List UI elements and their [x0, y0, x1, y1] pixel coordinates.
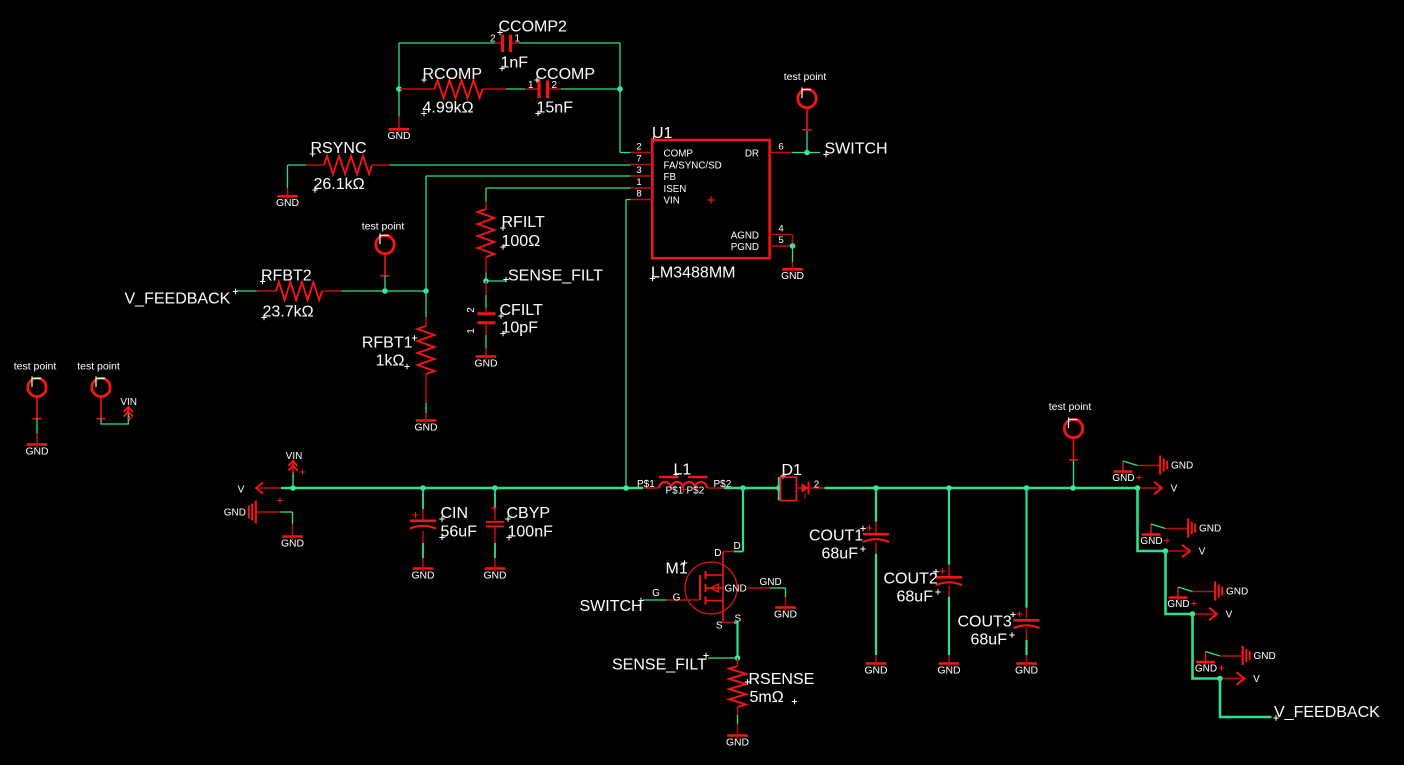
wire output rail — [825, 487, 1138, 490]
svg-text:68uF: 68uF — [897, 589, 934, 606]
svg-text:LM3488MM: LM3488MM — [651, 265, 735, 282]
ground GND under CBYP — [483, 568, 506, 582]
U1 pin 3 FB — [631, 165, 677, 183]
ground GND battery symbol 1 — [1138, 456, 1194, 475]
svg-text:GND: GND — [474, 358, 497, 369]
node staircase junction 4 — [1217, 676, 1223, 682]
svg-text:RSYNC: RSYNC — [311, 140, 367, 157]
svg-text:G: G — [673, 593, 681, 604]
ground GND under COUT3 — [1015, 663, 1038, 677]
wire staircase segment 1 — [1138, 488, 1166, 551]
wire staircase segment 2 — [1166, 551, 1193, 614]
wire RSYNC right lead — [372, 164, 390, 166]
test point TP output — [1049, 401, 1092, 460]
U1 pin 2 COMP — [631, 141, 694, 159]
wire M1 gate connection — [643, 588, 699, 604]
wire RFBT2 left lead — [257, 290, 277, 292]
svg-text:GND: GND — [1254, 651, 1276, 662]
svg-text:CCOMP2: CCOMP2 — [499, 19, 568, 36]
ground GND flag 2 on staircase — [1140, 524, 1169, 547]
node label SWITCH at gate — [580, 598, 644, 615]
test point TP2 far left — [77, 361, 120, 419]
wire RSYNC left lead — [306, 164, 324, 166]
svg-text:SENSE_FILT: SENSE_FILT — [612, 657, 707, 674]
resistor RCOMP 4.99k — [421, 66, 482, 117]
capacitor CIN 56uF — [410, 505, 477, 541]
svg-text:8: 8 — [636, 188, 641, 199]
wire L1 to D1 — [724, 487, 779, 490]
svg-text:GND: GND — [1226, 587, 1248, 598]
svg-text:GND: GND — [1015, 665, 1038, 676]
ground GND battery symbol 4 — [1220, 646, 1276, 665]
wire L1 right lead — [707, 487, 724, 489]
wire RCOMP left lead — [400, 88, 435, 90]
svg-text:COMP: COMP — [664, 149, 694, 160]
node label SENSE_FILT — [486, 268, 603, 285]
svg-text:V: V — [1226, 610, 1233, 621]
wire node to CFILT — [485, 281, 487, 313]
svg-text:S: S — [716, 621, 723, 632]
capacitor CFILT 10pF — [466, 302, 543, 337]
ground GND flag 1 on staircase — [1112, 461, 1141, 484]
node VIN junction — [290, 485, 296, 491]
node FB junction — [423, 288, 429, 294]
svg-text:7: 7 — [636, 153, 641, 164]
wire stem to GND — [398, 117, 400, 129]
U1 pin 5 PGND — [731, 235, 793, 253]
ground GND under COUT2 — [937, 663, 960, 677]
svg-text:COUT1: COUT1 — [809, 528, 863, 545]
wire TP2 to VIN — [101, 413, 128, 424]
ground GND at M1 bulk — [774, 607, 797, 621]
wire V_FEEDBACK stub — [237, 290, 257, 292]
ground GND under U1 — [781, 268, 804, 282]
wire M1 drain connection — [714, 541, 743, 559]
resistor RFILT 100ohm — [478, 209, 545, 257]
ground GND under CFILT — [474, 356, 497, 370]
U1 pin 8 VIN — [631, 188, 680, 206]
svg-text:GND: GND — [781, 271, 804, 282]
svg-text:DR: DR — [745, 149, 759, 160]
wire CCOMP to right vertical — [561, 88, 620, 90]
wire test point to SWITCH — [806, 131, 808, 153]
svg-text:G: G — [652, 588, 660, 599]
svg-text:SENSE_FILT: SENSE_FILT — [508, 268, 603, 285]
wire RFILT top lead — [485, 202, 487, 210]
inductor L1 — [637, 462, 732, 497]
svg-text:V_FEEDBACK: V_FEEDBACK — [125, 291, 231, 308]
wire PGND to ground — [792, 246, 794, 269]
svg-text:GND: GND — [483, 570, 506, 581]
ground GND under TP1 — [25, 444, 48, 458]
svg-text:RFILT: RFILT — [502, 214, 545, 231]
wire RCOMP to CCOMP — [506, 88, 525, 90]
svg-text:P$1: P$1 — [637, 479, 655, 490]
power flag VIN main — [286, 451, 305, 488]
node switch junction — [740, 485, 746, 491]
svg-text:VIN: VIN — [120, 397, 137, 408]
svg-text:D: D — [734, 541, 741, 552]
wire RSYNC to ground — [287, 165, 289, 196]
svg-text:GND: GND — [224, 508, 246, 519]
capacitor CBYP 100nF — [486, 505, 553, 541]
svg-text:4: 4 — [778, 223, 784, 234]
wire AGND to PGND junction — [790, 235, 796, 249]
svg-text:RFBT2: RFBT2 — [261, 268, 312, 285]
ground GND flag 4 on staircase — [1195, 652, 1224, 675]
svg-text:V: V — [1199, 547, 1206, 558]
wire rail to COUT1 — [873, 485, 879, 533]
wire rail to CBYP — [492, 485, 498, 520]
svg-text:GND: GND — [760, 577, 782, 588]
node junction right comp — [617, 86, 623, 92]
svg-text:68uF: 68uF — [822, 546, 859, 563]
svg-text:2: 2 — [490, 34, 496, 45]
wire RFBT2 to FB node — [342, 290, 427, 292]
svg-text:1kΩ: 1kΩ — [376, 353, 405, 370]
wire COUT1 to ground — [875, 542, 877, 662]
ground GND at RSYNC — [276, 195, 299, 209]
wire COMP loop top-left — [399, 42, 495, 44]
resistor RFBT1 1k — [362, 326, 435, 374]
svg-text:GND: GND — [414, 422, 437, 433]
wire RCOMP right lead — [483, 88, 507, 90]
power flag V arrow 1 — [1140, 482, 1178, 495]
svg-text:SWITCH: SWITCH — [580, 598, 643, 615]
wire RSYNC left — [288, 164, 307, 166]
wire RSYNC to pin 7 — [390, 164, 631, 166]
node label V_FEEDBACK bottom — [1273, 704, 1380, 721]
svg-text:CCOMP: CCOMP — [536, 66, 596, 83]
ground GND under CIN — [411, 568, 434, 582]
wire CFILT to ground — [485, 323, 487, 356]
wire to pin 2 — [620, 152, 631, 154]
capacitor CCOMP 15nF — [528, 66, 595, 117]
wire switch node down to M1 drain — [742, 488, 744, 552]
wire jumper diagonal 3 — [1178, 587, 1193, 592]
svg-text:test point: test point — [362, 221, 405, 233]
U1 pin 7 FA/SYNC/SD — [631, 153, 722, 171]
ground GND under comp loop — [387, 128, 410, 142]
svg-text:GND: GND — [276, 198, 299, 209]
svg-text:15nF: 15nF — [537, 100, 574, 117]
svg-text:COUT3: COUT3 — [958, 614, 1012, 631]
wire VIN pin to rail — [623, 200, 630, 491]
svg-text:GND: GND — [937, 665, 960, 676]
svg-text:1: 1 — [636, 177, 641, 188]
svg-text:GND: GND — [1195, 664, 1217, 675]
svg-text:RCOMP: RCOMP — [423, 66, 483, 83]
svg-text:23.7kΩ: 23.7kΩ — [263, 304, 314, 321]
svg-text:GND: GND — [25, 446, 48, 457]
svg-text:PGND: PGND — [731, 242, 759, 253]
voltage source V to ground — [224, 498, 293, 536]
ground GND under RFBT1 — [414, 420, 437, 434]
wire RFILT bottom lead — [485, 257, 487, 273]
svg-text:GND: GND — [725, 584, 747, 595]
svg-text:100Ω: 100Ω — [502, 233, 541, 250]
wire rail to COUT2 — [946, 485, 952, 576]
U1 pin 6 DR — [745, 141, 792, 159]
node SENSE_FILT junction — [483, 278, 489, 284]
capacitor CCOMP2 1nF — [490, 19, 567, 72]
wire CBYP to ground — [494, 527, 496, 568]
svg-text:ISEN: ISEN — [664, 184, 687, 195]
svg-text:FA/SYNC/SD: FA/SYNC/SD — [664, 161, 722, 172]
wire test point down to node — [384, 276, 386, 291]
svg-text:RFBT1: RFBT1 — [362, 335, 413, 352]
svg-text:V_FEEDBACK: V_FEEDBACK — [1274, 704, 1380, 721]
ground GND under COUT1 — [864, 663, 887, 677]
svg-text:1: 1 — [466, 328, 477, 334]
wire COUT3 to ground — [1026, 628, 1028, 662]
svg-text:test point: test point — [14, 361, 57, 373]
svg-text:CBYP: CBYP — [507, 505, 551, 522]
svg-text:test point: test point — [1049, 401, 1092, 413]
wire TP1 to ground — [36, 419, 38, 444]
transistor M1 MOSFET — [666, 552, 747, 623]
svg-text:test point: test point — [77, 361, 120, 373]
power flag V arrow 3 — [1195, 608, 1233, 621]
node staircase junction 2 — [1163, 548, 1169, 554]
svg-text:5mΩ: 5mΩ — [750, 689, 784, 706]
wire staircase segment 3 — [1193, 614, 1221, 679]
svg-text:D: D — [714, 548, 721, 559]
wire M1 bulk to ground — [748, 577, 786, 607]
svg-text:GND: GND — [387, 131, 410, 142]
wire RSENSE top lead — [737, 658, 739, 666]
power flag V input arrow — [238, 482, 281, 495]
node label SWITCH top — [823, 141, 887, 158]
svg-text:GND: GND — [281, 538, 304, 549]
svg-text:AGND: AGND — [731, 231, 759, 242]
node label SENSE_FILT bottom — [612, 653, 738, 674]
test point TP at feedback — [362, 221, 405, 276]
wire node to RFBT1 — [425, 291, 427, 326]
svg-text:10pF: 10pF — [502, 320, 539, 337]
ground GND under V source — [281, 536, 304, 550]
svg-text:V: V — [238, 485, 245, 496]
wire CCOMP2 to right corner — [519, 42, 620, 44]
power flag VIN at TP2 — [120, 397, 137, 421]
node label V_FEEDBACK left — [125, 289, 239, 308]
wire right vertical comp loop to COMP pin — [619, 43, 621, 153]
U1 pin 4 AGND — [731, 223, 793, 241]
resistor RFBT2 23.7k — [260, 268, 322, 321]
capacitor COUT1 68uF — [809, 525, 889, 563]
capacitor CCOMP2 leads — [495, 42, 519, 44]
svg-text:GND: GND — [1167, 599, 1189, 610]
svg-text:P$1: P$1 — [666, 486, 684, 497]
wire ISEN down to RFILT — [485, 188, 487, 202]
wire DR to SWITCH — [792, 152, 820, 154]
wire main rail left segment — [281, 487, 643, 490]
svg-text:RSENSE: RSENSE — [749, 671, 815, 688]
capacitor COUT2 68uF — [884, 568, 963, 605]
svg-text:COUT2: COUT2 — [884, 571, 938, 588]
wire jumper diagonal 1 — [1123, 461, 1138, 466]
capacitor CCOMP leads — [525, 88, 561, 90]
svg-text:2: 2 — [466, 307, 477, 313]
node test point junction — [382, 288, 388, 294]
svg-text:VIN: VIN — [664, 196, 680, 207]
wire FB net horizontal — [426, 175, 631, 177]
svg-text:68uF: 68uF — [971, 632, 1008, 649]
resistor RSYNC 26.1k — [310, 140, 372, 193]
svg-text:GND: GND — [411, 570, 434, 581]
wire left vertical of comp loop — [398, 43, 400, 117]
svg-text:2: 2 — [814, 479, 820, 490]
wire L1 left lead — [643, 487, 659, 489]
ground GND under RSENSE — [726, 735, 749, 749]
svg-text:P$2: P$2 — [687, 486, 705, 497]
capacitor COUT3 68uF — [958, 611, 1040, 648]
svg-text:GND: GND — [726, 737, 749, 748]
svg-text:GND: GND — [1171, 461, 1193, 472]
svg-text:test point: test point — [784, 71, 827, 83]
wire TP output to rail — [1070, 461, 1076, 491]
svg-text:V: V — [1171, 484, 1178, 495]
node SENSE_FILT bottom junction — [735, 655, 741, 661]
svg-text:GND: GND — [1140, 536, 1162, 547]
svg-text:6: 6 — [778, 141, 783, 152]
svg-text:SWITCH: SWITCH — [825, 141, 888, 158]
wire jumper diagonal 4 — [1206, 652, 1221, 657]
node junction left comp — [396, 86, 402, 92]
wire COUT2 to ground — [948, 585, 950, 662]
wire ISEN net horizontal — [486, 187, 631, 189]
svg-text:4.99kΩ: 4.99kΩ — [423, 100, 474, 117]
wire RSENSE to ground — [737, 707, 739, 735]
ground GND battery symbol 3 — [1193, 582, 1249, 601]
svg-text:CFILT: CFILT — [500, 302, 543, 319]
wire RFBT1 to ground — [425, 374, 427, 420]
svg-text:5: 5 — [778, 235, 783, 246]
diode D1 — [776, 462, 824, 501]
power flag V arrow 4 — [1223, 672, 1261, 685]
test point TP1 far left — [14, 361, 57, 419]
svg-text:26.1kΩ: 26.1kΩ — [314, 176, 365, 193]
power flag V arrow 2 — [1168, 545, 1206, 558]
U1 pin 1 ISEN — [631, 177, 687, 195]
svg-text:100nF: 100nF — [508, 524, 554, 541]
svg-text:GND: GND — [774, 609, 797, 620]
svg-text:V: V — [1253, 674, 1260, 685]
ground GND flag 3 on staircase — [1167, 587, 1196, 610]
svg-text:GND: GND — [1199, 524, 1221, 535]
node staircase junction 3 — [1190, 611, 1196, 617]
svg-text:GND: GND — [864, 665, 887, 676]
svg-text:1: 1 — [528, 80, 534, 91]
wire jumper diagonal 2 — [1151, 524, 1166, 529]
wire FB vertical — [425, 176, 427, 291]
wire rail to COUT3 — [1024, 485, 1030, 619]
wire rail to CIN — [420, 485, 426, 519]
op-amp U1 LM3488MM box — [650, 125, 770, 282]
svg-text:3: 3 — [636, 165, 641, 176]
ground GND battery symbol 2 — [1166, 519, 1222, 538]
wire RFILT to node — [485, 273, 487, 282]
svg-text:VIN: VIN — [286, 451, 303, 462]
test point TP at SWITCH — [784, 71, 827, 130]
svg-text:GND: GND — [1112, 473, 1134, 484]
resistor RSENSE 5mohm — [729, 666, 814, 707]
wire M1 source down — [716, 614, 742, 659]
wire RFBT2 right lead — [322, 290, 342, 292]
svg-text:FB: FB — [664, 172, 677, 183]
wire staircase to V_FEEDBACK — [1220, 679, 1272, 718]
svg-text:56uF: 56uF — [441, 524, 478, 541]
node staircase junction 1 — [1135, 485, 1141, 491]
svg-text:2: 2 — [636, 141, 641, 152]
node SWITCH junction — [804, 150, 810, 156]
wire CIN to ground — [422, 531, 424, 568]
